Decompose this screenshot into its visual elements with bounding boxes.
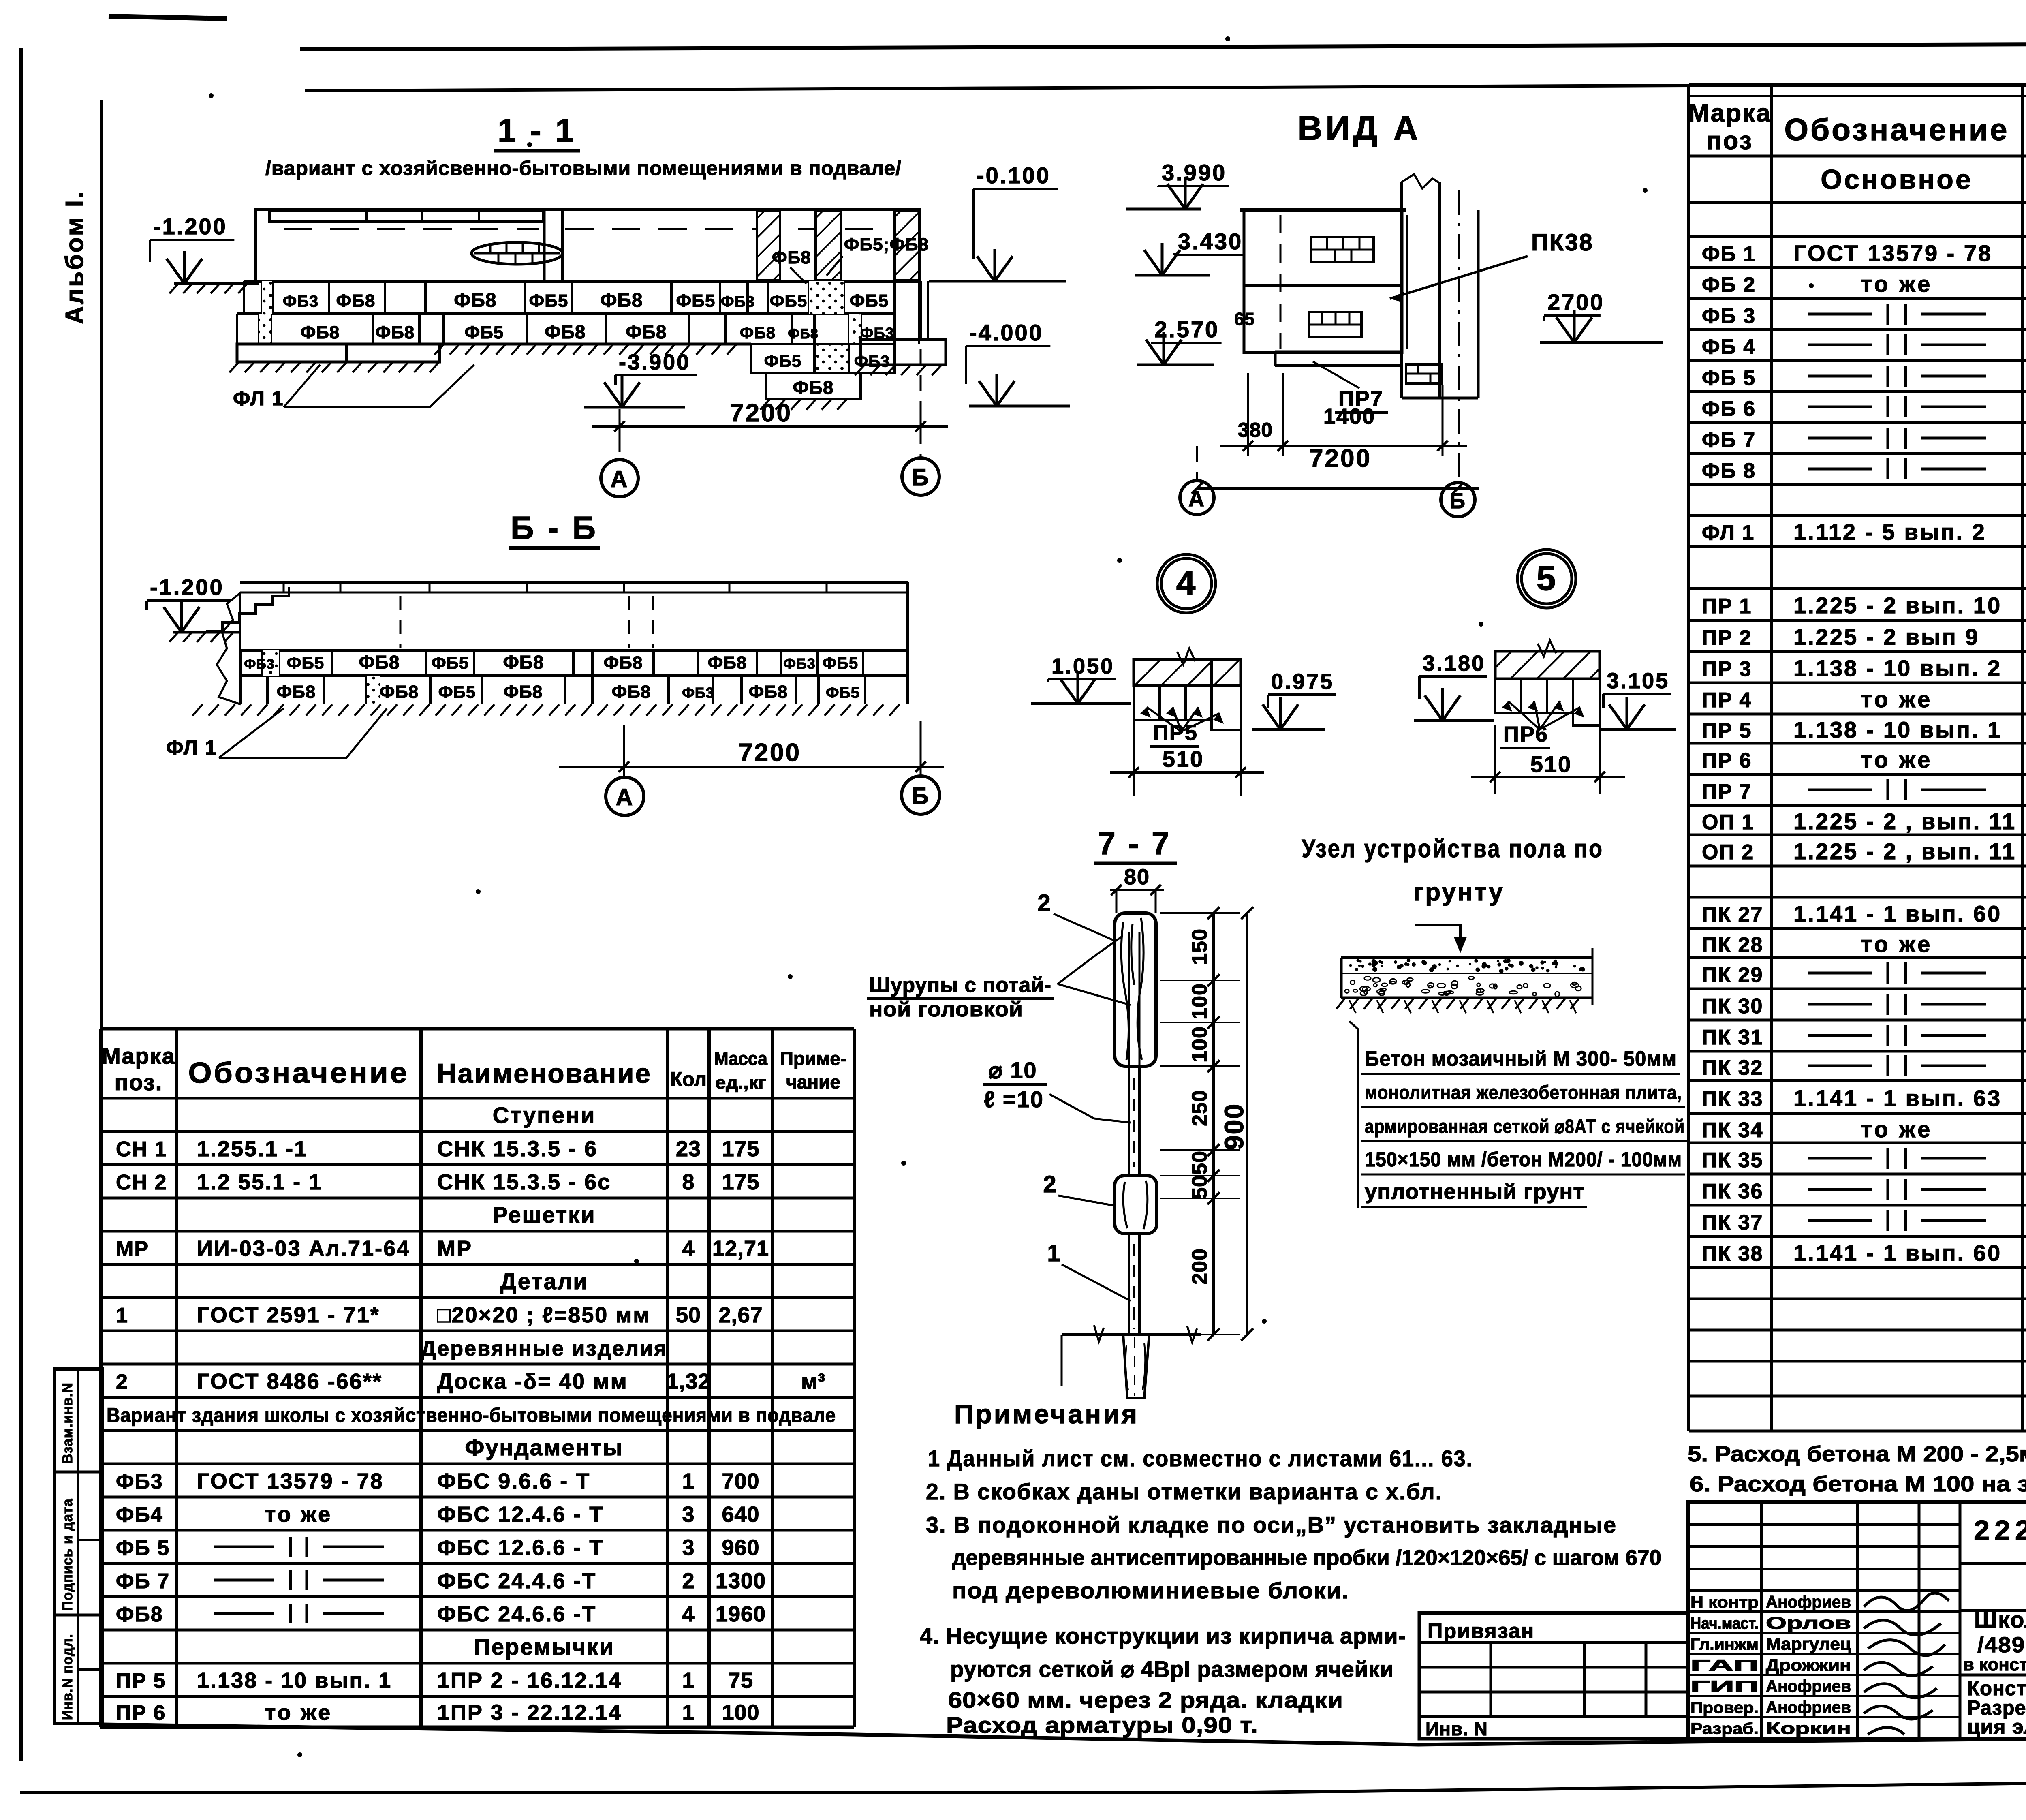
svg-text:1.138 - 10 вып. 1: 1.138 - 10 вып. 1	[1793, 717, 2002, 742]
svg-text:23: 23	[676, 1137, 701, 1161]
svg-text:ФБ 6: ФБ 6	[1702, 397, 1756, 421]
svg-text:ПК 36: ПК 36	[1702, 1180, 1763, 1203]
svg-text:12,71: 12,71	[712, 1236, 769, 1261]
svg-text:ФБ 5: ФБ 5	[116, 1536, 170, 1560]
svg-text:1ПР 3 - 22.12.14: 1ПР 3 - 22.12.14	[437, 1700, 622, 1725]
svg-text:640: 640	[722, 1502, 759, 1527]
svg-text:700: 700	[722, 1469, 759, 1493]
svg-text:ОП 1: ОП 1	[1702, 811, 1754, 834]
svg-text:ФБС 12.4.6 - Т: ФБС 12.4.6 - Т	[437, 1502, 604, 1527]
svg-text:уплотненный грунт: уплотненный грунт	[1365, 1180, 1584, 1204]
svg-text:поз: поз	[1707, 127, 1753, 155]
svg-text:то же: то же	[1861, 747, 1933, 772]
svg-text:СН 2: СН 2	[116, 1171, 167, 1194]
svg-text:ГОСТ 13579 - 78: ГОСТ 13579 - 78	[197, 1469, 384, 1493]
svg-text:м³: м³	[801, 1369, 825, 1394]
svg-text:армированная сеткой ⌀8АТ с яче: армированная сеткой ⌀8АТ с ячейкой	[1365, 1116, 1685, 1138]
svg-text:6. Расход бетона М 100 на з: 6. Расход бетона М 100 на заделки фундам…	[1690, 1472, 2026, 1496]
svg-text:Б: Б	[912, 783, 930, 809]
svg-text:Инв.N подл.: Инв.N подл.	[60, 1634, 75, 1720]
svg-text:ФБ8: ФБ8	[116, 1603, 163, 1626]
svg-text:ПК 35: ПК 35	[1702, 1148, 1763, 1172]
svg-text:ФБ5: ФБ5	[438, 682, 476, 701]
svg-text:ПК 38: ПК 38	[1702, 1242, 1763, 1266]
svg-text:Масса: Масса	[714, 1048, 767, 1069]
svg-text:ФБ 3: ФБ 3	[1702, 304, 1756, 328]
svg-text:100: 100	[722, 1700, 759, 1725]
svg-text:ФЛ 1: ФЛ 1	[166, 736, 217, 759]
svg-text:А: А	[616, 784, 634, 811]
svg-text:ФБ5: ФБ5	[287, 653, 324, 672]
svg-text:СН 1: СН 1	[116, 1138, 167, 1161]
svg-text:ПР 7: ПР 7	[1702, 780, 1752, 804]
svg-text:Кол: Кол	[670, 1068, 707, 1091]
svg-text:ед.,кг: ед.,кг	[715, 1073, 766, 1093]
svg-text:ФБ8: ФБ8	[600, 290, 643, 311]
svg-text:ПК 27: ПК 27	[1702, 903, 1763, 926]
svg-text:Перемычки: Перемычки	[474, 1634, 614, 1660]
svg-text:ФБ 7: ФБ 7	[1702, 428, 1756, 452]
svg-text:ной головкой: ной головкой	[869, 998, 1023, 1021]
svg-text:3: 3	[682, 1502, 695, 1527]
svg-text:Б: Б	[1449, 489, 1466, 513]
svg-text:1: 1	[682, 1469, 695, 1493]
svg-text:960: 960	[722, 1536, 759, 1560]
svg-text:ГОСТ 2591 - 71*: ГОСТ 2591 - 71*	[197, 1303, 380, 1327]
svg-text:ФБС 9.6.6 - Т: ФБС 9.6.6 - Т	[437, 1469, 590, 1493]
svg-text:1: 1	[682, 1700, 695, 1725]
svg-text:1.225 - 2 , вып. 11: 1.225 - 2 , вып. 11	[1793, 808, 2016, 834]
svg-text:то же: то же	[1861, 271, 1933, 297]
svg-text:1.141 - 1 вып. 60: 1.141 - 1 вып. 60	[1793, 901, 2002, 926]
svg-text:1,32: 1,32	[666, 1369, 710, 1394]
svg-text:ФБ8: ФБ8	[376, 323, 415, 342]
svg-text:ФБ5: ФБ5	[529, 291, 568, 311]
svg-text:Инв. N: Инв. N	[1425, 1718, 1488, 1739]
svg-text:ФБ8: ФБ8	[545, 321, 586, 342]
svg-text:то же: то же	[1861, 931, 1933, 957]
svg-text:ПК 34: ПК 34	[1702, 1119, 1763, 1142]
svg-text:ВИД А: ВИД А	[1298, 109, 1421, 147]
svg-text:1.112 - 5 вып. 2: 1.112 - 5 вып. 2	[1793, 519, 1986, 545]
svg-text:ФБ3: ФБ3	[283, 293, 318, 310]
svg-text:380: 380	[1238, 419, 1273, 441]
svg-text:поз.: поз.	[115, 1069, 163, 1095]
svg-text:деревянные антисептированные п: деревянные антисептированные пробки /120…	[952, 1546, 1661, 1570]
svg-text:7200: 7200	[739, 739, 801, 767]
svg-text:1: 1	[116, 1304, 128, 1327]
svg-text:150×150 мм /бетон М200/ - 100: 150×150 мм /бетон М200/ - 100мм	[1365, 1148, 1682, 1171]
svg-text:Подпись и дата: Подпись и дата	[60, 1498, 75, 1611]
svg-text:ФБ8: ФБ8	[504, 682, 543, 702]
svg-text:175: 175	[722, 1137, 759, 1161]
svg-text:1.138 - 10 вып. 2: 1.138 - 10 вып. 2	[1793, 655, 2002, 681]
svg-text:ПК 31: ПК 31	[1702, 1026, 1763, 1049]
svg-text:5: 5	[1537, 559, 1557, 598]
svg-text:-3.900: -3.900	[619, 350, 690, 374]
svg-text:Фундаменты: Фундаменты	[465, 1435, 623, 1460]
svg-text:Гл.инжм: Гл.инжм	[1690, 1636, 1759, 1653]
svg-text:7 - 7: 7 - 7	[1098, 826, 1171, 861]
svg-text:2: 2	[1043, 1171, 1057, 1198]
svg-text:ФБ8: ФБ8	[772, 248, 811, 267]
svg-text:Приме-: Приме-	[780, 1048, 846, 1069]
svg-text:80: 80	[1124, 865, 1150, 889]
svg-text:7200: 7200	[1309, 445, 1372, 473]
svg-text:Узел устройства пола по: Узел устройства пола по	[1302, 835, 1604, 863]
svg-text:ГАП: ГАП	[1690, 1657, 1759, 1675]
svg-text:ФЛ 1: ФЛ 1	[1702, 521, 1755, 545]
svg-text:2. В скобках даны отметки вари: 2. В скобках даны отметки варианта с х.б…	[926, 1479, 1443, 1504]
svg-text:ФБ8: ФБ8	[749, 682, 788, 702]
svg-text:1300: 1300	[716, 1569, 766, 1593]
svg-text:ФБ5: ФБ5	[764, 351, 801, 370]
svg-text:ФБ5: ФБ5	[850, 291, 889, 311]
svg-text:Детали: Детали	[500, 1268, 588, 1294]
svg-text:ФБ8: ФБ8	[301, 323, 340, 342]
svg-text:то же: то же	[265, 1502, 332, 1527]
svg-text:ПР 2: ПР 2	[1702, 626, 1752, 650]
svg-text:2,67: 2,67	[718, 1303, 763, 1327]
svg-text:50: 50	[676, 1303, 701, 1327]
svg-text:175: 175	[722, 1170, 759, 1194]
svg-text:ФБ8: ФБ8	[359, 652, 400, 673]
svg-text:100: 100	[1188, 1026, 1212, 1063]
svg-text:1.2 55.1 - 1: 1.2 55.1 - 1	[197, 1170, 322, 1194]
svg-text:ФЛ 1: ФЛ 1	[233, 387, 284, 410]
svg-text:ФБ3: ФБ3	[682, 684, 714, 701]
svg-text:1.255.1 -1: 1.255.1 -1	[197, 1137, 308, 1161]
svg-text:СНК 15.3.5 - 6: СНК 15.3.5 - 6	[437, 1137, 598, 1161]
svg-text:ФБ4: ФБ4	[116, 1503, 163, 1527]
svg-text:в конструкциях серии 1.020-1/8: в конструкциях серии 1.020-1/83	[1963, 1655, 2026, 1675]
svg-text:4: 4	[682, 1236, 695, 1261]
svg-text:ПР 6: ПР 6	[116, 1701, 166, 1725]
svg-text:50: 50	[1188, 1151, 1212, 1175]
svg-text:900: 900	[1219, 1103, 1249, 1150]
svg-text:222 - 1 - 467. 86: 222 - 1 - 467. 86	[1974, 1514, 2026, 1546]
svg-text:Дрожжин: Дрожжин	[1766, 1655, 1851, 1675]
svg-text:3. В подоконной кладке по оси„: 3. В подоконной кладке по оси„В” установ…	[926, 1512, 1617, 1538]
svg-text:4: 4	[682, 1602, 695, 1626]
svg-text:200: 200	[1188, 1248, 1212, 1285]
svg-text:Нач.маст.: Нач.маст.	[1690, 1615, 1759, 1632]
svg-text:ФБ8: ФБ8	[740, 324, 776, 342]
svg-text:50: 50	[1188, 1175, 1212, 1199]
svg-text:ПК 30: ПК 30	[1702, 994, 1763, 1018]
svg-text:ФБ5: ФБ5	[465, 323, 504, 342]
svg-text:под дереволюминиевые блоки.: под дереволюминиевые блоки.	[952, 1578, 1349, 1603]
svg-text:2: 2	[1037, 890, 1051, 916]
svg-text:ФБ3: ФБ3	[721, 293, 755, 310]
svg-text:3.990: 3.990	[1162, 160, 1227, 185]
svg-text:ФБ5: ФБ5	[823, 654, 858, 672]
svg-text:ОП 2: ОП 2	[1702, 840, 1754, 864]
svg-text:Разраб.: Разраб.	[1690, 1720, 1759, 1738]
svg-text:□20×20 ; ℓ=850 мм: □20×20 ; ℓ=850 мм	[437, 1303, 650, 1327]
svg-text:ФБ5: ФБ5	[826, 684, 860, 701]
svg-text:ГИП: ГИП	[1690, 1678, 1759, 1696]
svg-text:ФБ5: ФБ5	[432, 653, 469, 672]
svg-text:ПК 33: ПК 33	[1702, 1087, 1763, 1111]
svg-text:8: 8	[682, 1170, 695, 1194]
svg-text:ПР5: ПР5	[1153, 721, 1198, 745]
svg-text:Основное: Основное	[1821, 164, 1973, 195]
svg-text:ПК 28: ПК 28	[1702, 933, 1763, 957]
svg-text:Марка: Марка	[102, 1043, 175, 1069]
svg-text:-4.000: -4.000	[969, 320, 1043, 345]
svg-text:МР: МР	[437, 1236, 472, 1261]
svg-text:ФБ8: ФБ8	[788, 326, 818, 342]
svg-text:ПК 29: ПК 29	[1702, 963, 1763, 987]
svg-text:510: 510	[1530, 751, 1572, 777]
svg-text:ФБ 7: ФБ 7	[116, 1570, 170, 1593]
svg-text:то же: то же	[1861, 1116, 1933, 1142]
svg-text:Орлов: Орлов	[1766, 1613, 1851, 1632]
svg-text:ФБ 4: ФБ 4	[1702, 335, 1756, 359]
svg-text:1.141 - 1 вып. 63: 1.141 - 1 вып. 63	[1793, 1085, 2002, 1111]
svg-text:⌀ 10: ⌀ 10	[989, 1057, 1037, 1083]
svg-text:Анофриев: Анофриев	[1766, 1677, 1851, 1696]
svg-text:2700: 2700	[1547, 289, 1605, 315]
svg-text:СНК 15.3.5 - 6с: СНК 15.3.5 - 6с	[437, 1170, 611, 1194]
svg-text:ФБ3: ФБ3	[783, 655, 816, 672]
svg-text:ПК 32: ПК 32	[1702, 1056, 1763, 1080]
svg-text:ФБ5;ФБ8: ФБ5;ФБ8	[844, 235, 929, 255]
svg-text:то же: то же	[265, 1700, 332, 1725]
svg-text:ФБ8: ФБ8	[454, 290, 496, 311]
svg-text:ФБС 24.6.6 -Т: ФБС 24.6.6 -Т	[437, 1602, 596, 1626]
svg-text:ФБС 12.6.6 - Т: ФБС 12.6.6 - Т	[437, 1536, 604, 1560]
svg-text:60×60 мм. через 2 ряда. кладк: 60×60 мм. через 2 ряда. кладки	[948, 1687, 1343, 1713]
svg-text:Альбом I.: Альбом I.	[61, 190, 89, 324]
svg-text:7200: 7200	[730, 399, 792, 427]
svg-text:Решетки: Решетки	[492, 1202, 596, 1228]
svg-text:2: 2	[116, 1370, 128, 1394]
svg-text:Взам.инв.N: Взам.инв.N	[60, 1382, 75, 1464]
svg-text:1: 1	[1047, 1240, 1061, 1266]
svg-text:Наименование: Наименование	[437, 1058, 652, 1089]
svg-text:ПК 37: ПК 37	[1702, 1211, 1763, 1234]
svg-text:/489 - 504 учащихся/: /489 - 504 учащихся/	[1977, 1633, 2026, 1657]
svg-text:ГОСТ 8486 -66**: ГОСТ 8486 -66**	[197, 1369, 383, 1394]
svg-text:1400: 1400	[1323, 404, 1375, 429]
svg-text:Расход арматуры 0,90 т.: Расход арматуры 0,90 т.	[946, 1712, 1258, 1738]
svg-text:ФБ 5: ФБ 5	[1702, 366, 1756, 390]
svg-text:Коркин: Коркин	[1766, 1719, 1851, 1738]
svg-text:ПР 5: ПР 5	[116, 1669, 166, 1693]
svg-text:1.225 - 2 вып 9: 1.225 - 2 вып 9	[1793, 624, 1979, 650]
svg-text:ФБ 8: ФБ 8	[1702, 459, 1756, 483]
svg-text:Б: Б	[912, 464, 930, 491]
svg-text:ИИ-03-03 Ал.71-64: ИИ-03-03 Ал.71-64	[197, 1236, 410, 1261]
svg-text:ФБ8: ФБ8	[277, 682, 316, 702]
svg-text:1ПР 2 - 16.12.14: 1ПР 2 - 16.12.14	[437, 1668, 622, 1693]
svg-text:75: 75	[728, 1668, 753, 1693]
svg-text:-0.100: -0.100	[977, 163, 1051, 188]
svg-text:Б - Б: Б - Б	[511, 510, 598, 546]
svg-text:3.180: 3.180	[1423, 651, 1485, 676]
svg-text:Марка: Марка	[1688, 99, 1771, 127]
svg-text:0.975: 0.975	[1271, 669, 1334, 694]
svg-text:МР: МР	[116, 1237, 149, 1261]
svg-text:ФБ8: ФБ8	[503, 652, 544, 673]
svg-text:грунту: грунту	[1413, 878, 1504, 906]
svg-text:4. Несущие конструкции из кирп: 4. Несущие конструкции из кирпича арми-	[920, 1623, 1406, 1649]
svg-text:Ступени: Ступени	[493, 1102, 596, 1128]
svg-text:ция элементов: ция элементов	[1967, 1715, 2026, 1738]
svg-text:ФБ8: ФБ8	[708, 653, 747, 673]
svg-text:Обозначение: Обозначение	[1785, 113, 2009, 147]
svg-text:А: А	[611, 466, 629, 492]
svg-text:ГОСТ 13579 - 78: ГОСТ 13579 - 78	[1793, 240, 1992, 266]
svg-text:чание: чание	[786, 1071, 840, 1093]
svg-text:ФБ8: ФБ8	[604, 653, 643, 673]
svg-text:Обозначение: Обозначение	[188, 1057, 409, 1089]
svg-text:ПР 6: ПР 6	[1702, 749, 1752, 772]
svg-text:ФБ8: ФБ8	[612, 682, 651, 702]
svg-text:ФБ8: ФБ8	[793, 377, 834, 398]
svg-text:-1.200: -1.200	[153, 214, 227, 239]
svg-text:ФБ3: ФБ3	[116, 1470, 163, 1493]
svg-text:Бетон мозаичный М 300- 50мм: Бетон мозаичный М 300- 50мм	[1365, 1047, 1677, 1071]
svg-text:1.138 - 10 вып. 1: 1.138 - 10 вып. 1	[197, 1668, 392, 1693]
svg-text:150: 150	[1188, 928, 1212, 965]
svg-text:3.430: 3.430	[1178, 229, 1243, 254]
svg-text:А: А	[1188, 487, 1205, 511]
svg-text:1: 1	[682, 1668, 695, 1693]
svg-text:ФБ3: ФБ3	[244, 657, 274, 672]
svg-text:250: 250	[1188, 1090, 1212, 1126]
svg-text:ФБ8: ФБ8	[336, 291, 376, 311]
svg-text:1960: 1960	[716, 1602, 766, 1626]
svg-text:руются сеткой ⌀ 4ВрI размером: руются сеткой ⌀ 4ВрI размером ячейки	[950, 1656, 1394, 1682]
svg-text:Маргулец: Маргулец	[1766, 1634, 1851, 1653]
svg-text:100: 100	[1188, 983, 1212, 1020]
svg-text:ФБ 1: ФБ 1	[1702, 242, 1756, 266]
svg-text:ФБ8: ФБ8	[380, 682, 419, 702]
svg-text:3: 3	[682, 1536, 695, 1560]
svg-text:1 - 1: 1 - 1	[498, 112, 576, 149]
svg-text:1 Данный лист см. совместно с: 1 Данный лист см. совместно с листами 61…	[928, 1446, 1473, 1471]
svg-text:Провер.: Провер.	[1690, 1699, 1759, 1717]
svg-text:монолитная железобетонная плит: монолитная железобетонная плита,	[1365, 1082, 1682, 1104]
svg-text:Вариант здания школы с хозя: Вариант здания школы с хозяйственно-быто…	[107, 1404, 836, 1426]
svg-text:Анофриев: Анофриев	[1766, 1698, 1851, 1717]
svg-text:ПР 3: ПР 3	[1702, 657, 1752, 681]
svg-text:ПР 5: ПР 5	[1702, 719, 1752, 742]
svg-text:Доска -δ= 40 мм: Доска -δ= 40 мм	[437, 1369, 628, 1394]
svg-text:1.050: 1.050	[1051, 654, 1114, 678]
svg-text:то же: то же	[1861, 687, 1933, 712]
svg-text:ПР 4: ПР 4	[1702, 689, 1752, 712]
svg-text:ФБ5: ФБ5	[676, 291, 716, 311]
svg-text:ФБ8: ФБ8	[626, 321, 667, 342]
svg-text:Анофриев: Анофриев	[1766, 1592, 1851, 1611]
svg-text:-1.200: -1.200	[150, 574, 224, 600]
svg-text:1.141 - 1 вып. 60: 1.141 - 1 вып. 60	[1793, 1240, 2002, 1266]
svg-text:/вариант с хозяйсвенно-бытовым: /вариант с хозяйсвенно-бытовыми помещени…	[265, 157, 902, 180]
svg-text:Привязан: Привязан	[1428, 1619, 1534, 1643]
svg-text:Деревянные изделия: Деревянные изделия	[421, 1337, 668, 1360]
svg-text:ПК38: ПК38	[1531, 229, 1594, 256]
svg-text:1.225 - 2 , вып. 11: 1.225 - 2 , вып. 11	[1793, 838, 2016, 864]
svg-text:3.105: 3.105	[1607, 669, 1669, 693]
svg-text:5. Расход бетона М 200 - 2,5м: 5. Расход бетона М 200 - 2,5м³, Расход а…	[1688, 1442, 2026, 1466]
svg-text:ФБ 2: ФБ 2	[1702, 273, 1756, 297]
svg-text:ℓ =10: ℓ =10	[984, 1086, 1044, 1112]
svg-text:1.225 - 2 вып. 10: 1.225 - 2 вып. 10	[1793, 592, 2002, 618]
svg-text:Школа на 13 классов: Школа на 13 классов	[1974, 1607, 2026, 1632]
svg-text:ФБС 24.4.6 -Т: ФБС 24.4.6 -Т	[437, 1569, 596, 1593]
svg-text:ФБ5: ФБ5	[770, 291, 807, 310]
svg-text:ПР 1: ПР 1	[1702, 595, 1752, 618]
svg-text:Н контр: Н контр	[1690, 1593, 1759, 1611]
svg-text:Шурупы с потай-: Шурупы с потай-	[869, 973, 1051, 997]
svg-text:4: 4	[1176, 564, 1197, 603]
svg-text:510: 510	[1163, 746, 1204, 772]
svg-text:Примечания: Примечания	[954, 1399, 1139, 1429]
svg-text:2: 2	[682, 1569, 695, 1593]
